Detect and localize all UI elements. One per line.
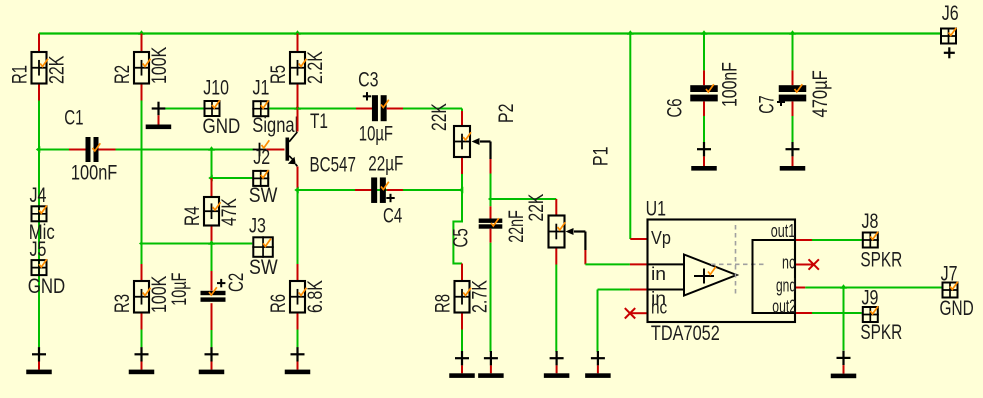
svg-text:470µF: 470µF (808, 70, 832, 117)
wire top V+ rail (39, 32, 940, 34)
node P2/emitter wire junction (459, 187, 464, 194)
svg-text:2.2K: 2.2K (303, 51, 327, 84)
crosshair dashed (735, 225, 737, 297)
pin U1 out2 (796, 312, 812, 314)
node rail/R5 junction (294, 30, 301, 35)
wire R5 bottom lead (297, 85, 299, 109)
svg-text:R8: R8 (431, 294, 455, 313)
wire P1 bottom stub (555, 249, 557, 265)
svg-text:BC547: BC547 (310, 153, 356, 177)
svg-text:J6: J6 (942, 1, 959, 25)
capacitor C7 (792, 34, 794, 71)
pin U1 Vp (630, 238, 646, 240)
ground below R8 (461, 351, 463, 365)
svg-text:C2: C2 (224, 273, 248, 292)
svg-text:2.7K: 2.7K (467, 280, 491, 313)
svg-text:nc: nc (782, 252, 795, 273)
svg-text:Signal: Signal (252, 113, 298, 137)
svg-text:J4: J4 (30, 183, 47, 207)
wire U1 in lower to ground (598, 289, 630, 291)
node rail/C7 junction (789, 30, 796, 35)
svg-text:J10: J10 (203, 76, 229, 100)
wire R1 to J4/J5 column (38, 101, 40, 348)
svg-text:C7: C7 (755, 96, 779, 114)
potentiometer P1 body (549, 216, 565, 248)
node J2/R4 junction (208, 175, 213, 182)
wire wiper node to P1 (491, 198, 557, 200)
node C1/J2/R4 junction (208, 146, 215, 151)
svg-text:R2: R2 (110, 65, 134, 84)
wire bias R3/R4/C2 to J3 (142, 243, 253, 245)
node R1/C1 junction (36, 146, 41, 153)
svg-text:C6: C6 (663, 98, 687, 117)
ground below P1 (555, 351, 557, 365)
ground below C5 (490, 351, 492, 365)
ground below C6 (703, 142, 705, 156)
svg-text:nc: nc (651, 297, 667, 318)
svg-text:SPKR: SPKR (860, 320, 902, 344)
svg-text:C5: C5 (449, 228, 473, 247)
pin U1 in upper (630, 263, 647, 265)
svg-text:100nF: 100nF (718, 62, 742, 107)
svg-text:T1: T1 (310, 109, 328, 133)
svg-text:R5: R5 (266, 65, 290, 84)
svg-text:gnd: gnd (776, 275, 796, 296)
pin U1 out1 (796, 239, 812, 241)
node rail/R2 junction (138, 30, 145, 35)
svg-text:GND: GND (28, 274, 65, 298)
wire R6 top (297, 190, 299, 264)
svg-text:GND: GND (940, 296, 974, 320)
capacitor C1 (39, 149, 69, 151)
ground below gnd wire (842, 351, 844, 365)
potentiometer P2 wiper arrow (472, 138, 480, 145)
wire R1 top stub (38, 34, 40, 52)
svg-text:10µF: 10µF (359, 122, 393, 146)
resistor R5 body (290, 52, 305, 84)
svg-text:Vp: Vp (651, 227, 671, 248)
wire R4 top stub (211, 178, 213, 196)
svg-text:C1: C1 (64, 106, 83, 130)
pin U1 in lower (630, 289, 647, 291)
op-amp U1 box (648, 220, 796, 323)
node rail/Vp junction (627, 30, 634, 35)
pin U1 nc left (631, 312, 647, 314)
svg-text:J3: J3 (249, 213, 266, 237)
potentiometer P1 wiper arrow (566, 228, 574, 235)
svg-text:U1: U1 (646, 197, 666, 221)
svg-text:P2: P2 (494, 104, 518, 124)
svg-text:R3: R3 (110, 294, 134, 313)
ground below R3 (140, 347, 142, 361)
svg-text:100K: 100K (147, 47, 171, 84)
svg-text:22µF: 22µF (368, 151, 403, 175)
svg-text:SW: SW (249, 255, 278, 279)
pin T1 base endpoint (253, 149, 267, 151)
wire R3 bottom lead (141, 314, 143, 330)
node P2 wiper / C5 / P1 junction (488, 196, 492, 201)
svg-text:in: in (651, 263, 666, 284)
ground below R6 (296, 347, 298, 361)
wire Vp vertical (629, 34, 631, 240)
wire R6 bottom lead (297, 314, 299, 330)
ground below C2 (210, 347, 212, 361)
resistor R1 body (32, 52, 47, 84)
wire T1 base lead (266, 149, 284, 151)
node R2-R3/bias wire junction (139, 241, 143, 246)
svg-text:10µF: 10µF (167, 273, 191, 306)
svg-text:C3: C3 (358, 68, 378, 92)
op-amp U1 output bracket (753, 240, 797, 313)
wire P2 bottom stub (461, 158, 463, 174)
wire out2 to J9 (812, 312, 862, 314)
wire R1 bottom lead (38, 85, 40, 101)
wire to J2 (212, 177, 253, 179)
wire out1 to J8 (812, 239, 862, 241)
wire R3 top stub (141, 264, 143, 280)
svg-text:R1: R1 (8, 65, 32, 84)
wire emitter node to R8 (jog) (453, 190, 462, 264)
ground below J5 (38, 347, 40, 361)
svg-text:6.8K: 6.8K (303, 280, 327, 313)
capacitor C3 (298, 108, 357, 110)
svg-text:out1: out1 (771, 220, 796, 241)
resistor R3 body (134, 281, 149, 313)
svg-text:J8: J8 (862, 209, 879, 233)
op-amp U1 triangle (684, 255, 737, 296)
wire R2 top stub (141, 34, 143, 52)
wire R5 top stub (297, 34, 299, 52)
ground below U1 in (597, 351, 599, 365)
svg-text:P1: P1 (589, 147, 613, 167)
node T1 emitter junction (294, 187, 299, 194)
svg-text:22K: 22K (524, 194, 548, 222)
ground near J10 (159, 108, 204, 110)
wire P1 wiper to U1 in (585, 263, 630, 265)
wire C3 to P2 (461, 109, 463, 112)
svg-text:SPKR: SPKR (860, 248, 902, 272)
svg-text:100nF: 100nF (71, 161, 117, 185)
capacitor C4 (298, 189, 356, 191)
wire emitter to C4/P2 (298, 189, 463, 191)
resistor R6 body (290, 281, 305, 313)
node R5/T1 collector junction (294, 105, 301, 110)
wire gnd to J7 (805, 287, 941, 289)
wire R2 bottom lead (141, 85, 143, 101)
transistor T1 (297, 109, 299, 132)
pin U1 gnd (796, 287, 805, 289)
capacitor C6 (703, 34, 705, 71)
svg-text:J5: J5 (30, 237, 47, 261)
svg-text:GND: GND (203, 114, 241, 138)
pin U1 nc right (796, 264, 813, 266)
node bias/C2 junction (208, 240, 215, 245)
wire R8 bottom lead (461, 314, 463, 330)
wire J1 to R5/T1 node (269, 108, 297, 110)
wire gnd drop to ground (843, 288, 845, 351)
svg-text:TDA7052: TDA7052 (651, 321, 720, 345)
svg-text:C4: C4 (383, 204, 402, 228)
svg-text:47K: 47K (217, 198, 241, 226)
svg-text:R4: R4 (180, 206, 204, 226)
svg-text:J2: J2 (253, 145, 270, 169)
svg-text:22K: 22K (44, 56, 68, 84)
svg-text:R6: R6 (266, 294, 290, 313)
svg-text:SW: SW (249, 183, 278, 207)
resistor R2 body (134, 52, 149, 84)
capacitor C2 (211, 244, 213, 272)
node gnd wire junction (840, 284, 847, 289)
wire J2 branch down (211, 150, 213, 179)
capacitor C5 (490, 199, 492, 206)
svg-text:22K: 22K (427, 103, 451, 131)
svg-text:out2: out2 (772, 296, 796, 317)
potentiometer P2 body (454, 126, 470, 157)
wire R4 bottom stub (211, 227, 213, 244)
resistor R8 body (455, 281, 470, 313)
resistor R4 body (204, 197, 219, 226)
ground below C7 (791, 142, 793, 156)
wire R2 to R3 (141, 101, 143, 265)
node rail/C6 junction (701, 30, 708, 35)
wire C1 to T1 base node (116, 149, 255, 151)
